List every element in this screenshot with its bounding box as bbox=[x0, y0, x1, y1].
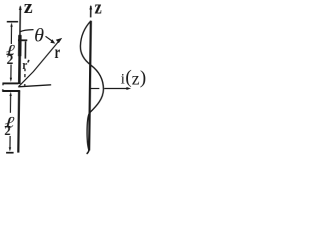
z-axis line (left figure) bbox=[19, 7, 21, 35]
i(z) arrow segment 2 with head bbox=[104, 88, 127, 90]
dimension bottom tick bbox=[6, 152, 13, 154]
center tick upper bbox=[2, 82, 18, 84]
antenna upper arm (thick) bbox=[18, 35, 21, 84]
svg-text:θ: θ bbox=[34, 26, 44, 46]
upper dimension line lower part bbox=[10, 65, 12, 79]
lower dimension arrow (down) bbox=[9, 147, 11, 151]
lower dimension arrow (up) bbox=[9, 92, 11, 96]
r vector line bbox=[19, 40, 60, 87]
prime of r' bbox=[28, 60, 29, 63]
upper dimension arrow (up) bbox=[10, 23, 12, 27]
tick at source point z' bbox=[18, 39, 27, 41]
antenna wire bottom hook bbox=[87, 149, 90, 154]
z-axis line (right figure) bbox=[90, 6, 92, 17]
svg-text:2: 2 bbox=[4, 124, 10, 138]
current distribution curve i(z) bbox=[79, 21, 104, 151]
i(z) arrow segment 1 bbox=[91, 88, 100, 90]
z-axis arrowhead (left) bbox=[19, 5, 22, 10]
theta leader line bbox=[20, 30, 34, 32]
z-axis arrowhead (right) bbox=[89, 5, 92, 10]
svg-text:z: z bbox=[94, 0, 102, 18]
svg-text:): ) bbox=[140, 68, 147, 89]
r' dashed continuation to origin bbox=[24, 69, 26, 71]
lower dimension line lower part bbox=[9, 136, 11, 148]
feed horizontal line bbox=[18, 85, 51, 87]
svg-text:i: i bbox=[121, 72, 125, 88]
r' arrow shaft bbox=[24, 41, 26, 58]
theta pointer arrow bbox=[45, 36, 52, 41]
dimension top tick bbox=[7, 21, 18, 23]
antenna lower arm bbox=[17, 91, 20, 153]
antenna wire (right figure) bbox=[89, 21, 91, 151]
svg-text:z: z bbox=[132, 69, 140, 89]
r vector arrowhead bbox=[56, 38, 62, 43]
svg-text:z: z bbox=[24, 0, 34, 18]
svg-text:2: 2 bbox=[7, 52, 14, 67]
current element overlay bbox=[18, 35, 22, 56]
upper dimension arrow (down) bbox=[10, 78, 12, 82]
center tick lower bbox=[2, 90, 20, 92]
svg-text:r: r bbox=[54, 43, 60, 63]
